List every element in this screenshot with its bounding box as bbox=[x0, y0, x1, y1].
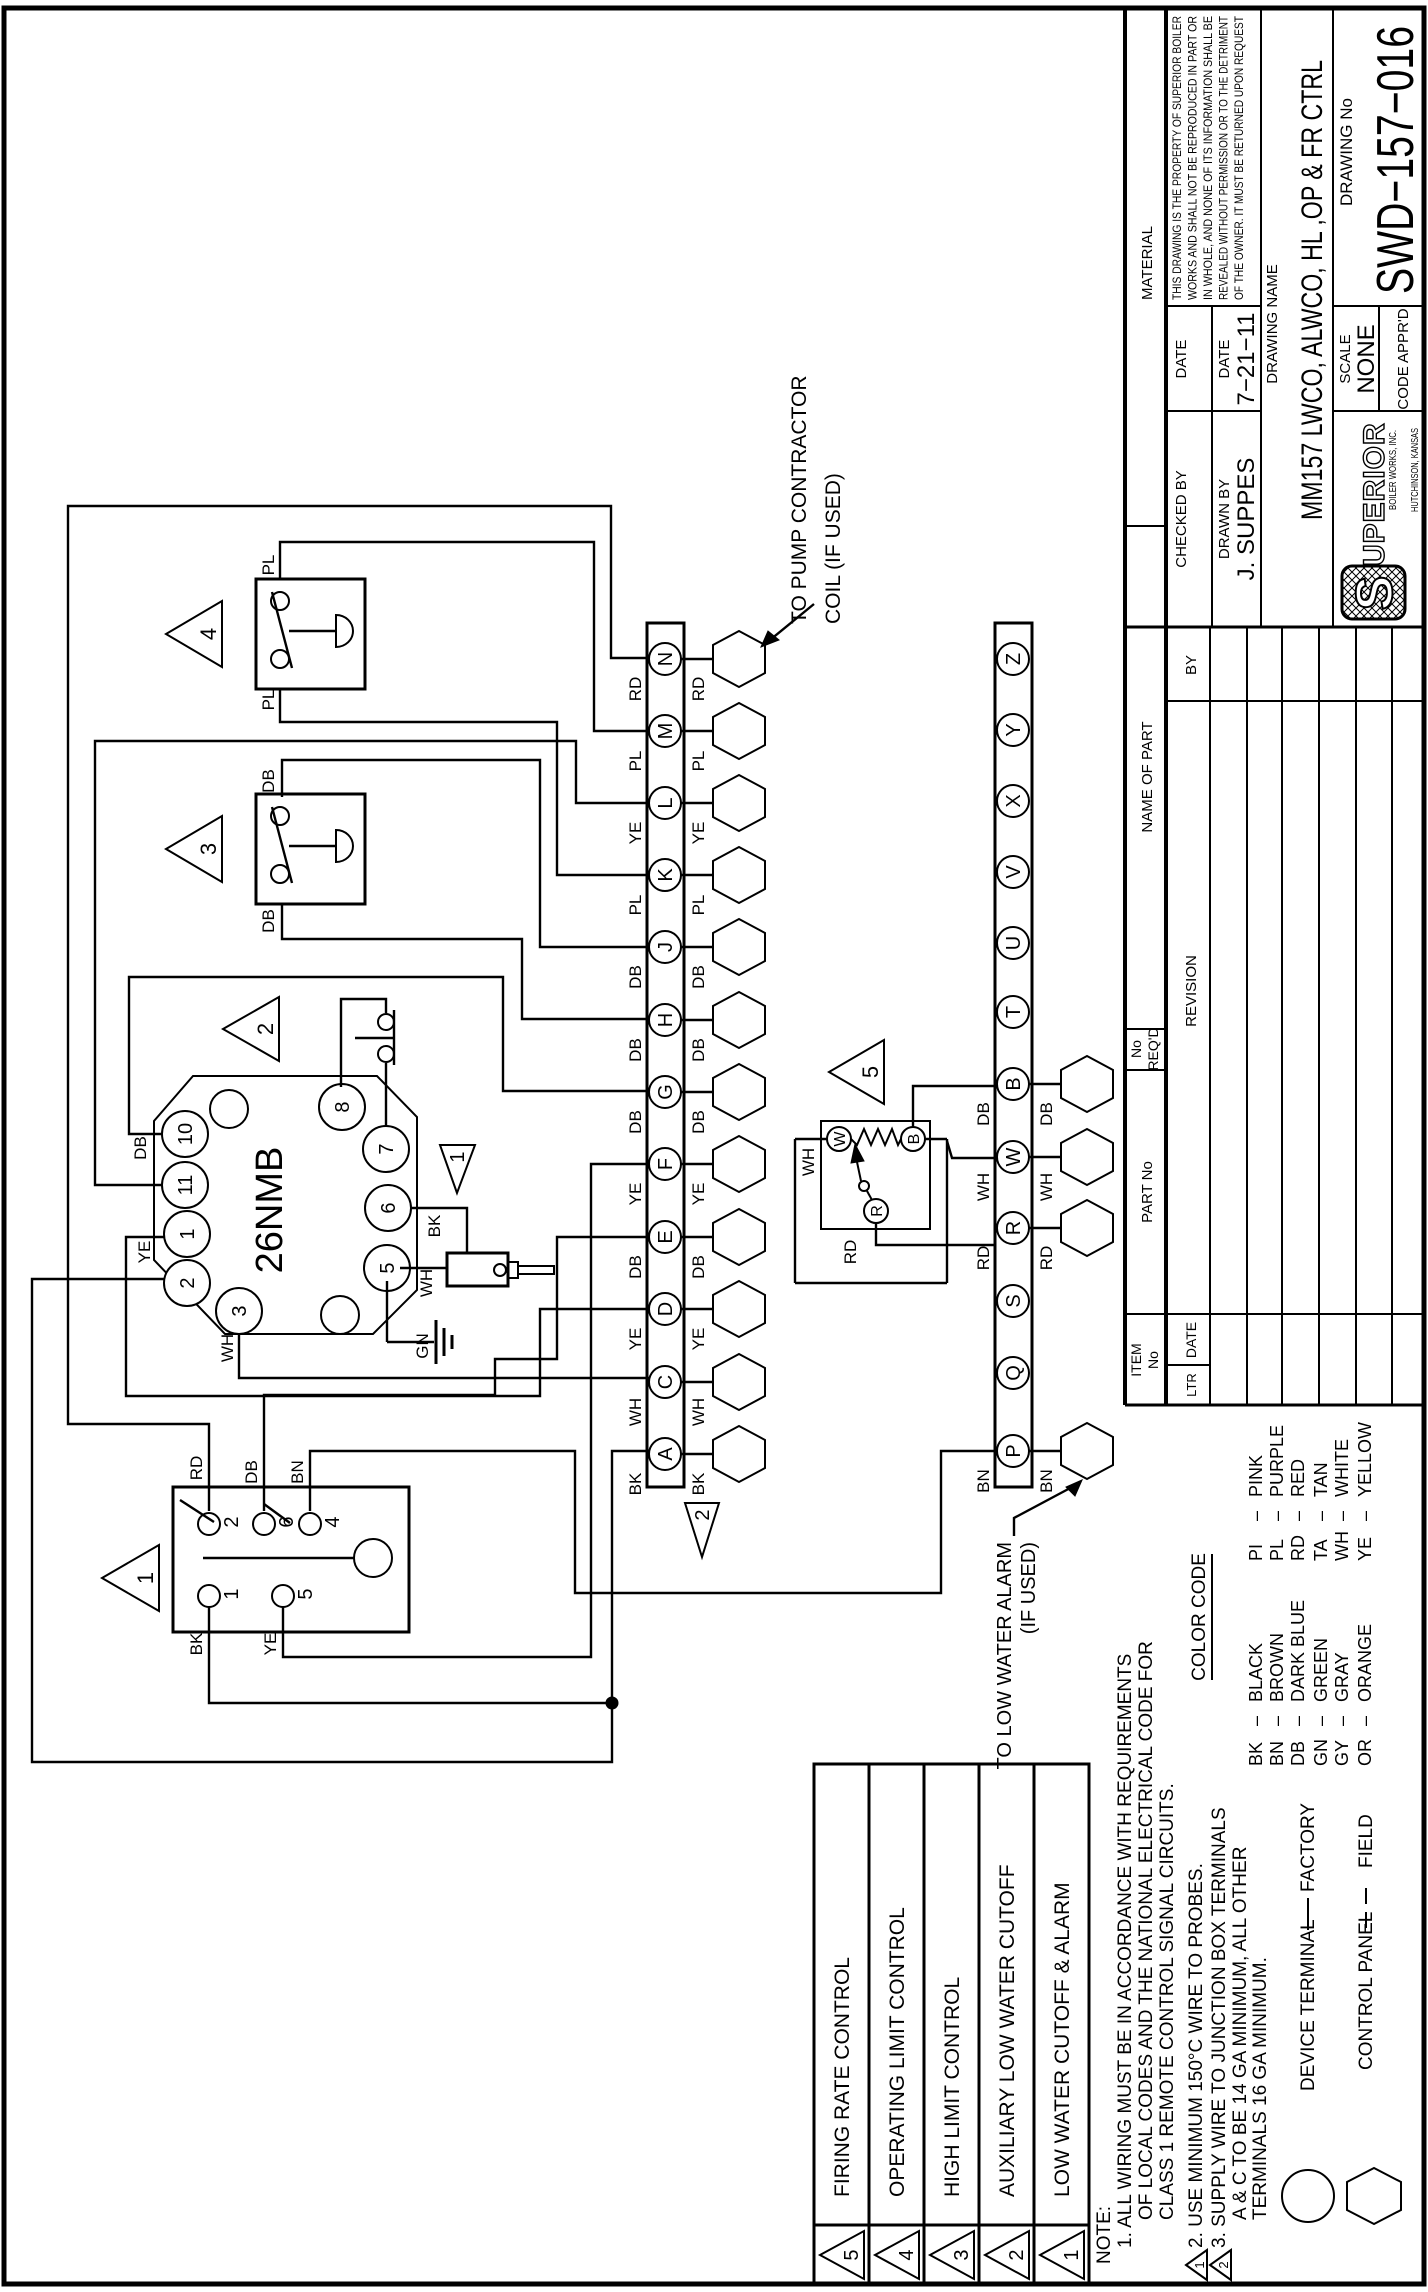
svg-text:4: 4 bbox=[322, 1516, 344, 1527]
svg-text:Q: Q bbox=[1003, 1365, 1025, 1381]
svg-text:DB: DB bbox=[1288, 1741, 1308, 1766]
svg-text:W: W bbox=[832, 1131, 849, 1147]
svg-text:BK: BK bbox=[626, 1472, 645, 1495]
svg-text:DB: DB bbox=[626, 965, 645, 989]
svg-text:WH: WH bbox=[626, 1398, 645, 1426]
svg-text:PURPLE: PURPLE bbox=[1267, 1425, 1287, 1497]
svg-text:NAME OF PART: NAME OF PART bbox=[1139, 721, 1156, 832]
svg-text:PL: PL bbox=[1267, 1539, 1287, 1561]
svg-text:WH: WH bbox=[1332, 1531, 1352, 1561]
svg-text:DRAWING No: DRAWING No bbox=[1337, 98, 1356, 206]
svg-text:5: 5 bbox=[841, 2249, 863, 2260]
svg-text:1: 1 bbox=[447, 1151, 469, 1162]
svg-text:GN: GN bbox=[1311, 1739, 1331, 1766]
svg-text:DATE: DATE bbox=[1183, 1322, 1199, 1358]
svg-text:2: 2 bbox=[221, 1516, 243, 1527]
svg-text:TA: TA bbox=[1311, 1539, 1331, 1561]
svg-text:RD: RD bbox=[1037, 1246, 1056, 1271]
svg-text:IN WHOLE, AND NONE OF ITS INFO: IN WHOLE, AND NONE OF ITS INFORMATION SH… bbox=[1203, 16, 1215, 300]
svg-text:–: – bbox=[1311, 1716, 1331, 1726]
svg-text:1: 1 bbox=[177, 1228, 199, 1239]
svg-text:B: B bbox=[1003, 1077, 1025, 1090]
svg-text:A & C TO BE 14 GA MINIMUM, ALL: A & C TO BE 14 GA MINIMUM, ALL OTHER bbox=[1230, 1847, 1251, 2220]
svg-text:PL: PL bbox=[689, 751, 708, 772]
svg-text:X: X bbox=[1003, 794, 1025, 807]
svg-text:1: 1 bbox=[1192, 2261, 1207, 2268]
svg-text:7−21−11: 7−21−11 bbox=[1233, 313, 1260, 406]
svg-text:1. ALL WIRING MUST BE IN ACCOR: 1. ALL WIRING MUST BE IN ACCORDANCE WITH… bbox=[1115, 1654, 1136, 2248]
svg-text:1: 1 bbox=[133, 1572, 158, 1584]
svg-text:BN: BN bbox=[1037, 1469, 1056, 1493]
svg-text:YE: YE bbox=[689, 822, 708, 845]
svg-text:REVEALED WITHOUT PERMISSION OR: REVEALED WITHOUT PERMISSION OR TO THE DE… bbox=[1219, 16, 1231, 300]
svg-text:DB: DB bbox=[689, 1038, 708, 1062]
svg-text:G: G bbox=[655, 1084, 677, 1100]
svg-text:RD: RD bbox=[974, 1246, 993, 1271]
svg-text:No: No bbox=[1128, 1040, 1144, 1058]
svg-text:WH: WH bbox=[1037, 1173, 1056, 1201]
svg-text:PL: PL bbox=[259, 555, 278, 576]
svg-text:DB: DB bbox=[689, 965, 708, 989]
svg-text:10: 10 bbox=[175, 1123, 197, 1145]
svg-text:P: P bbox=[1003, 1444, 1025, 1457]
svg-text:C: C bbox=[655, 1375, 677, 1389]
svg-text:J. SUPPES: J. SUPPES bbox=[1233, 458, 1260, 581]
svg-text:No: No bbox=[1145, 1351, 1161, 1369]
svg-text:RED: RED bbox=[1288, 1459, 1308, 1497]
svg-text:BN: BN bbox=[288, 1460, 307, 1484]
svg-text:Z: Z bbox=[1003, 653, 1025, 665]
svg-text:HIGH LIMIT CONTROL: HIGH LIMIT CONTROL bbox=[941, 1977, 964, 2197]
svg-text:DB: DB bbox=[689, 1255, 708, 1279]
svg-text:BN: BN bbox=[974, 1469, 993, 1493]
svg-text:PL: PL bbox=[626, 895, 645, 916]
svg-text:REQ'D: REQ'D bbox=[1145, 1027, 1161, 1070]
svg-text:2: 2 bbox=[253, 1023, 278, 1035]
svg-text:–: – bbox=[1288, 1511, 1308, 1521]
svg-text:RD: RD bbox=[689, 677, 708, 702]
svg-text:GY: GY bbox=[1332, 1740, 1352, 1766]
svg-text:LOW WATER CUTOFF & ALARM: LOW WATER CUTOFF & ALARM bbox=[1051, 1882, 1074, 2197]
svg-text:BOILER WORKS, INC.: BOILER WORKS, INC. bbox=[1387, 430, 1399, 510]
svg-text:PL: PL bbox=[689, 895, 708, 916]
svg-text:DB: DB bbox=[689, 1110, 708, 1134]
svg-text:DRAWING NAME: DRAWING NAME bbox=[1264, 264, 1281, 383]
svg-text:A: A bbox=[655, 1447, 677, 1461]
svg-text:V: V bbox=[1003, 865, 1025, 879]
svg-text:DARK BLUE: DARK BLUE bbox=[1288, 1600, 1308, 1702]
svg-text:2. USE MINIMUM 150°C WIRE TO P: 2. USE MINIMUM 150°C WIRE TO PROBES. bbox=[1186, 1863, 1207, 2248]
svg-text:J: J bbox=[655, 942, 677, 952]
svg-text:BK: BK bbox=[689, 1472, 708, 1495]
svg-text:COLOR CODE: COLOR CODE bbox=[1189, 1553, 1210, 1681]
svg-text:N: N bbox=[655, 652, 677, 666]
svg-text:TO PUMP CONTRACTOR: TO PUMP CONTRACTOR bbox=[788, 375, 811, 624]
svg-text:OF THE OWNER. IT MUST BE RETUR: OF THE OWNER. IT MUST BE RETURNED UPON R… bbox=[1234, 16, 1246, 300]
svg-text:PL: PL bbox=[626, 751, 645, 772]
svg-text:YE: YE bbox=[689, 1183, 708, 1206]
svg-text:WH: WH bbox=[974, 1173, 993, 1201]
svg-text:ORANGE: ORANGE bbox=[1355, 1624, 1375, 1702]
svg-text:CHECKED BY: CHECKED BY bbox=[1173, 470, 1190, 568]
svg-text:DB: DB bbox=[1037, 1102, 1056, 1126]
svg-text:1: 1 bbox=[221, 1588, 243, 1599]
svg-text:LTR: LTR bbox=[1184, 1373, 1199, 1397]
svg-text:DB: DB bbox=[259, 769, 278, 793]
svg-text:SCALE: SCALE bbox=[1337, 334, 1354, 383]
svg-text:YE: YE bbox=[626, 1328, 645, 1351]
svg-text:YE: YE bbox=[1355, 1537, 1375, 1561]
svg-text:RD: RD bbox=[626, 677, 645, 702]
svg-text:T: T bbox=[1003, 1006, 1025, 1018]
svg-text:–: – bbox=[1246, 1511, 1266, 1521]
svg-text:CODE APPR'D: CODE APPR'D bbox=[1395, 308, 1412, 409]
svg-text:4: 4 bbox=[196, 628, 221, 640]
svg-text:OF LOCAL CODES AND THE NATIONA: OF LOCAL CODES AND THE NATIONAL ELECTRIC… bbox=[1136, 1641, 1157, 2220]
svg-text:SWD−157−016: SWD−157−016 bbox=[1367, 26, 1425, 294]
svg-text:COIL (IF USED): COIL (IF USED) bbox=[822, 473, 845, 624]
svg-text:WORKS AND SHALL NOT BE REPRODU: WORKS AND SHALL NOT BE REPRODUCED IN PAR… bbox=[1188, 16, 1200, 300]
svg-text:TAN: TAN bbox=[1311, 1462, 1331, 1497]
svg-text:ITEM: ITEM bbox=[1128, 1343, 1144, 1376]
svg-text:–: – bbox=[1355, 1511, 1375, 1521]
svg-text:BK: BK bbox=[425, 1214, 444, 1237]
svg-text:5: 5 bbox=[858, 1066, 883, 1078]
svg-text:R: R bbox=[869, 1205, 886, 1217]
svg-text:1: 1 bbox=[1061, 2249, 1083, 2260]
svg-text:U: U bbox=[1003, 936, 1025, 950]
svg-text:(IF USED): (IF USED) bbox=[1018, 1542, 1040, 1634]
svg-text:RD: RD bbox=[841, 1240, 860, 1265]
svg-text:–: – bbox=[1311, 1511, 1331, 1521]
svg-text:CLASS 1 REMOTE CONTROL SIGNAL: CLASS 1 REMOTE CONTROL SIGNAL CIRCUITS. bbox=[1157, 1783, 1178, 2220]
svg-text:OR: OR bbox=[1355, 1739, 1375, 1766]
svg-text:2: 2 bbox=[177, 1277, 199, 1288]
svg-text:YE: YE bbox=[626, 822, 645, 845]
svg-text:WH: WH bbox=[417, 1269, 436, 1297]
svg-text:PL: PL bbox=[259, 690, 278, 711]
svg-text:11: 11 bbox=[175, 1175, 197, 1196]
svg-text:CONTROL PANEL: CONTROL PANEL bbox=[1356, 1912, 1377, 2070]
svg-text:–: – bbox=[1332, 1716, 1352, 1726]
svg-text:–: – bbox=[1288, 1716, 1308, 1726]
svg-text:5: 5 bbox=[295, 1588, 317, 1599]
svg-text:MM157 LWCO, ALWCO, HL ,OP & FR: MM157 LWCO, ALWCO, HL ,OP & FR CTRL bbox=[1296, 60, 1329, 520]
svg-text:YELLOW: YELLOW bbox=[1355, 1422, 1375, 1497]
svg-text:NONE: NONE bbox=[1353, 324, 1380, 393]
svg-text:FACTORY: FACTORY bbox=[1298, 1803, 1319, 1892]
svg-text:YE: YE bbox=[626, 1183, 645, 1206]
svg-text:AUXILIARY LOW WATER CUTOFF: AUXILIARY LOW WATER CUTOFF bbox=[996, 1864, 1019, 2197]
svg-text:W: W bbox=[1003, 1147, 1025, 1166]
svg-text:3: 3 bbox=[951, 2249, 973, 2260]
svg-text:YE: YE bbox=[261, 1633, 280, 1656]
svg-text:R: R bbox=[1003, 1221, 1025, 1235]
svg-text:3. SUPPLY WIRE TO JUNCTION BOX: 3. SUPPLY WIRE TO JUNCTION BOX TERMINALS bbox=[1209, 1807, 1230, 2248]
svg-text:26NMB: 26NMB bbox=[249, 1147, 291, 1274]
svg-text:5: 5 bbox=[377, 1262, 399, 1273]
svg-text:TERMINALS 16 GA MINIMUM.: TERMINALS 16 GA MINIMUM. bbox=[1250, 1957, 1271, 2220]
svg-text:3: 3 bbox=[229, 1305, 251, 1316]
svg-text:B: B bbox=[906, 1134, 923, 1145]
svg-text:3: 3 bbox=[196, 843, 221, 855]
svg-text:DB: DB bbox=[259, 909, 278, 933]
svg-text:GREEN: GREEN bbox=[1311, 1638, 1331, 1702]
svg-text:OPERATING LIMIT CONTROL: OPERATING LIMIT CONTROL bbox=[886, 1907, 909, 2197]
svg-text:BLACK: BLACK bbox=[1246, 1643, 1266, 1702]
svg-text:BROWN: BROWN bbox=[1267, 1633, 1287, 1702]
svg-text:DB: DB bbox=[626, 1038, 645, 1062]
svg-text:WH: WH bbox=[799, 1148, 818, 1176]
svg-text:WH: WH bbox=[218, 1334, 237, 1362]
svg-text:GRAY: GRAY bbox=[1332, 1652, 1352, 1702]
svg-text:BY: BY bbox=[1183, 655, 1200, 675]
svg-text:DB: DB bbox=[626, 1110, 645, 1134]
svg-text:S: S bbox=[1003, 1294, 1025, 1307]
svg-text:Y: Y bbox=[1003, 723, 1025, 736]
svg-text:–: – bbox=[1267, 1716, 1287, 1726]
svg-text:8: 8 bbox=[332, 1101, 354, 1112]
svg-text:L: L bbox=[655, 797, 677, 808]
svg-text:DEVICE TERMINAL: DEVICE TERMINAL bbox=[1298, 1919, 1319, 2091]
svg-text:FIELD: FIELD bbox=[1356, 1814, 1377, 1868]
svg-text:WH: WH bbox=[689, 1398, 708, 1426]
svg-text:–: – bbox=[1267, 1511, 1287, 1521]
svg-text:BK: BK bbox=[1246, 1742, 1266, 1766]
svg-text:MATERIAL: MATERIAL bbox=[1139, 226, 1156, 300]
svg-text:TO LOW WATER ALARM: TO LOW WATER ALARM bbox=[994, 1542, 1016, 1769]
svg-text:PI: PI bbox=[1246, 1544, 1266, 1561]
svg-text:YE: YE bbox=[689, 1328, 708, 1351]
svg-text:REVISION: REVISION bbox=[1183, 955, 1200, 1027]
svg-text:DRAWN BY: DRAWN BY bbox=[1216, 479, 1233, 559]
svg-text:THIS DRAWING IS THE PROPERTY O: THIS DRAWING IS THE PROPERTY OF SUPERIOR… bbox=[1172, 16, 1184, 300]
svg-text:PART No: PART No bbox=[1139, 1161, 1156, 1223]
svg-text:GN: GN bbox=[413, 1333, 432, 1359]
svg-text:DB: DB bbox=[131, 1136, 150, 1160]
svg-text:2: 2 bbox=[1006, 2249, 1028, 2260]
svg-text:RD: RD bbox=[1288, 1535, 1308, 1561]
svg-text:S: S bbox=[1346, 576, 1404, 611]
svg-text:NOTE:: NOTE: bbox=[1094, 2206, 1115, 2264]
svg-text:DB: DB bbox=[974, 1102, 993, 1126]
svg-text:6: 6 bbox=[378, 1202, 400, 1213]
svg-text:E: E bbox=[655, 1230, 677, 1243]
svg-text:2: 2 bbox=[1216, 2261, 1231, 2268]
svg-text:HUTCHINSON, KANSAS: HUTCHINSON, KANSAS bbox=[1409, 428, 1421, 512]
svg-text:F: F bbox=[655, 1158, 677, 1170]
svg-text:K: K bbox=[655, 868, 677, 882]
svg-text:BN: BN bbox=[1267, 1741, 1287, 1766]
svg-text:PINK: PINK bbox=[1246, 1455, 1266, 1497]
svg-text:BK: BK bbox=[187, 1632, 206, 1655]
svg-text:2: 2 bbox=[692, 1509, 714, 1520]
svg-text:D: D bbox=[655, 1302, 677, 1316]
svg-text:–: – bbox=[1332, 1511, 1352, 1521]
svg-text:RD: RD bbox=[187, 1456, 206, 1481]
svg-text:H: H bbox=[655, 1013, 677, 1027]
svg-text:DB: DB bbox=[242, 1460, 261, 1484]
svg-text:DB: DB bbox=[626, 1255, 645, 1279]
svg-text:DATE: DATE bbox=[1173, 340, 1190, 379]
svg-text:4: 4 bbox=[896, 2249, 918, 2260]
svg-text:–: – bbox=[1355, 1716, 1375, 1726]
svg-text:FIRING RATE CONTROL: FIRING RATE CONTROL bbox=[831, 1957, 854, 2197]
svg-text:M: M bbox=[655, 723, 677, 740]
svg-text:DATE: DATE bbox=[1216, 340, 1233, 379]
svg-text:WHITE: WHITE bbox=[1332, 1439, 1352, 1497]
svg-text:–: – bbox=[1246, 1716, 1266, 1726]
svg-text:YE: YE bbox=[135, 1241, 154, 1264]
svg-text:7: 7 bbox=[376, 1143, 398, 1154]
